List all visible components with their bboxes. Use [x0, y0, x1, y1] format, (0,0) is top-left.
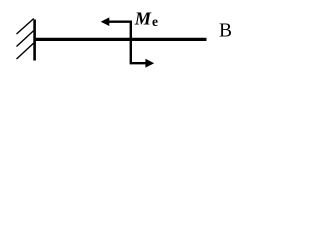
fixed support hatch line 1 [17, 19, 34, 35]
fixed support hatch line 3 [17, 43, 34, 59]
svg-text:e: e [152, 14, 158, 29]
fixed support hatch line 2 [17, 31, 34, 47]
svg-text:M: M [134, 9, 152, 29]
beam A-B [34, 38, 207, 41]
fixed support wall line [33, 20, 36, 61]
svg-text:B: B [219, 21, 232, 42]
moment bottom arrowhead (points right) [145, 59, 154, 68]
moment couple elbow wire [108, 22, 147, 64]
moment top arrowhead (points left) [101, 17, 110, 26]
